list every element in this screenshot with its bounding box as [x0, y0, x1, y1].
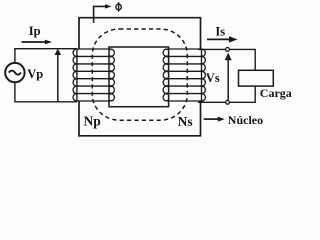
svg-text:Núcleo: Núcleo — [228, 113, 263, 127]
svg-text:Vp: Vp — [27, 67, 43, 81]
svg-text:Is: Is — [215, 24, 225, 38]
svg-text:Vs: Vs — [206, 71, 220, 85]
svg-text:Ip: Ip — [29, 24, 41, 38]
svg-text:Carga: Carga — [260, 86, 292, 100]
svg-text:Np: Np — [84, 113, 101, 128]
svg-text:Ns: Ns — [178, 114, 193, 129]
